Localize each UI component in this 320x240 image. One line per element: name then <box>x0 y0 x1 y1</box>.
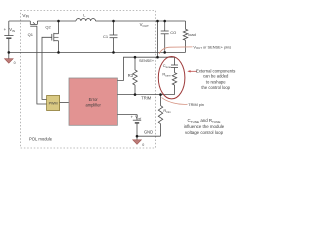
svg-text:Ctune: Ctune <box>163 63 172 69</box>
svg-text:Rtune: Rtune <box>162 72 171 78</box>
wire TRIM from error amplifier <box>117 94 174 96</box>
ground rail wire <box>9 51 186 53</box>
svg-text:VOUT: VOUT <box>140 22 149 28</box>
svg-text:to reshape: to reshape <box>206 79 226 84</box>
annotation text Ctune and Rtune influence <box>184 118 225 135</box>
svg-text:PWM: PWM <box>49 101 58 105</box>
svg-text:0: 0 <box>14 61 16 65</box>
capacitor Ctune <box>171 57 178 72</box>
wire PWM to error amplifier <box>60 102 70 104</box>
wire GND rail trim <box>137 135 161 137</box>
svg-text:voltage control loop: voltage control loop <box>185 130 224 135</box>
PWM block <box>47 96 60 111</box>
wire SENSE+ to error amplifier input <box>117 57 174 80</box>
resistor R3 <box>133 57 137 94</box>
node Vin label <box>22 13 29 19</box>
resistor Rtune <box>172 73 176 95</box>
capacitor C1 <box>110 21 118 52</box>
capacitor CO <box>161 21 169 52</box>
svg-text:GND: GND <box>144 130 153 135</box>
annotation ellipse around Ctune/Rtune <box>158 56 185 98</box>
svg-text:load: load <box>188 32 196 37</box>
svg-text:VIN: VIN <box>9 27 15 33</box>
svg-text:TRIM pin: TRIM pin <box>188 102 204 107</box>
svg-text:0: 0 <box>142 143 144 147</box>
svg-text:Vref: Vref <box>135 115 141 121</box>
label POL module <box>29 136 53 141</box>
wire Q1 gate to PWM <box>37 26 47 104</box>
label TRIM <box>141 95 152 100</box>
annotation text Vout or SENSE+ pins <box>193 44 231 50</box>
annotation text External components <box>196 69 235 90</box>
ground 0 (Vref/GND) <box>133 136 142 144</box>
source Vref battery <box>117 115 141 137</box>
svg-text:R3: R3 <box>128 73 134 78</box>
svg-text:POL module: POL module <box>29 136 53 141</box>
svg-text:C1: C1 <box>103 34 109 39</box>
resistor load <box>183 21 187 52</box>
annotation leader Vout/SENSE+ pins <box>159 47 193 54</box>
annotation leader TRIM pin <box>162 98 188 105</box>
wire L to Vout pin <box>96 20 156 22</box>
transistor Q2 <box>52 21 59 52</box>
wire top rail input <box>9 20 31 22</box>
svg-text:TRIM: TRIM <box>141 95 152 100</box>
wire Q2 gate to PWM <box>42 37 52 99</box>
label SENSE+ <box>139 59 155 63</box>
label GND <box>144 130 153 135</box>
wire top rail Q1 to switch node <box>37 20 76 22</box>
svg-text:Q2: Q2 <box>45 24 51 29</box>
junction dots <box>8 20 167 138</box>
POL module dashed boundary <box>21 11 156 149</box>
svg-text:SENSE+: SENSE+ <box>139 59 155 63</box>
wire Vout external top <box>156 20 186 22</box>
svg-text:influence the module: influence the module <box>184 124 225 129</box>
svg-text:the control loop: the control loop <box>201 85 230 90</box>
svg-text:Q1: Q1 <box>28 32 34 37</box>
resistor Rtrim <box>158 95 162 137</box>
svg-text:CO: CO <box>170 30 176 35</box>
transistor Q1 <box>30 21 37 26</box>
node Vout label <box>140 22 149 28</box>
svg-text:Rtrim: Rtrim <box>163 108 171 114</box>
source Vin battery <box>4 21 13 52</box>
label + Vin (source) <box>4 27 15 33</box>
inductor L <box>76 19 96 21</box>
svg-text:amplifier: amplifier <box>85 102 101 107</box>
annotation text TRIM pin <box>188 102 204 107</box>
wire Vout to SENSE+ drop <box>157 21 159 57</box>
svg-text:can be added: can be added <box>203 74 229 79</box>
annotation leader External components <box>189 70 198 72</box>
ground 0 (input) <box>5 52 14 63</box>
op-amp U1 error amplifier block <box>69 78 117 125</box>
